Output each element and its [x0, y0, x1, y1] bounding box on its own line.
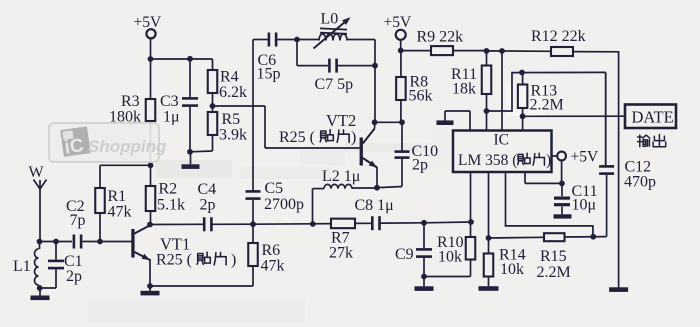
svg-text:R9 22k: R9 22k — [417, 29, 464, 46]
svg-text:6.2k: 6.2k — [219, 84, 247, 101]
svg-text:2p: 2p — [66, 268, 82, 285]
svg-text:+5V: +5V — [571, 149, 599, 166]
svg-text:R4: R4 — [220, 69, 239, 86]
svg-text:R25 (: R25 ( — [279, 129, 315, 146]
svg-text:): ) — [546, 152, 551, 169]
svg-text:2p: 2p — [200, 197, 216, 214]
svg-text:+5V: +5V — [384, 14, 412, 31]
svg-text:C4: C4 — [198, 181, 217, 198]
svg-text:56k: 56k — [409, 88, 433, 105]
svg-text:W: W — [29, 164, 45, 181]
svg-text:7p: 7p — [70, 212, 86, 229]
svg-text:2700p: 2700p — [264, 196, 304, 213]
svg-text:2.2M: 2.2M — [537, 264, 571, 281]
svg-text:18k: 18k — [452, 81, 476, 98]
svg-text:R15: R15 — [540, 248, 567, 265]
svg-text:C3: C3 — [160, 93, 179, 110]
svg-text:LM 358 (: LM 358 ( — [458, 152, 517, 169]
svg-text:R2: R2 — [159, 181, 178, 198]
svg-text:2.2M: 2.2M — [530, 97, 564, 114]
svg-text:Shopping: Shopping — [88, 137, 167, 156]
svg-text:R3: R3 — [121, 93, 140, 110]
svg-text:10k: 10k — [500, 261, 524, 278]
svg-text:): ) — [351, 129, 356, 146]
svg-text:47k: 47k — [108, 204, 132, 221]
svg-text:R12 22k: R12 22k — [531, 28, 586, 45]
svg-text:C7 5p: C7 5p — [315, 76, 354, 93]
svg-text:R6: R6 — [262, 242, 281, 259]
svg-text:C8 1μ: C8 1μ — [355, 197, 394, 214]
svg-text:): ) — [231, 252, 236, 269]
svg-text:+5V: +5V — [134, 14, 162, 31]
svg-text:C9: C9 — [395, 246, 414, 263]
svg-text:10μ: 10μ — [572, 197, 597, 214]
svg-text:15p: 15p — [257, 66, 281, 83]
svg-text:R5: R5 — [222, 111, 241, 128]
svg-text:iC: iC — [63, 135, 85, 158]
svg-text:47k: 47k — [261, 258, 285, 275]
svg-text:1μ: 1μ — [163, 109, 180, 126]
svg-text:3.9k: 3.9k — [219, 127, 247, 144]
svg-text:5.1k: 5.1k — [157, 197, 185, 214]
svg-text:C5: C5 — [265, 180, 284, 197]
svg-text:L0: L0 — [321, 11, 339, 28]
svg-text:27k: 27k — [329, 245, 353, 262]
svg-text:L2 1μ: L2 1μ — [322, 168, 360, 185]
svg-text:L1: L1 — [13, 258, 31, 275]
svg-text:R25 (: R25 ( — [156, 252, 192, 269]
svg-text:R1: R1 — [108, 188, 127, 205]
svg-text:IC: IC — [494, 132, 510, 149]
svg-text:2p: 2p — [412, 157, 428, 174]
svg-text:470p: 470p — [624, 174, 656, 191]
svg-text:10k: 10k — [438, 249, 462, 266]
svg-text:VT2: VT2 — [326, 111, 356, 130]
svg-text:DATE: DATE — [632, 108, 674, 127]
